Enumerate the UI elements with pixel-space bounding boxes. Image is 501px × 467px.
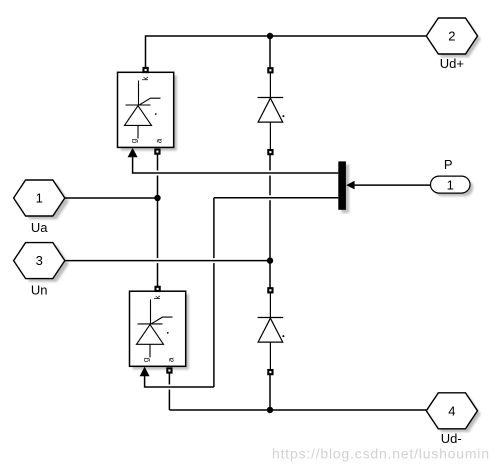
svg-text:4: 4 xyxy=(448,403,455,418)
wire: Ua to a-k node xyxy=(65,197,158,199)
svg-text:1: 1 xyxy=(36,191,43,206)
svg-text:P: P xyxy=(444,157,453,172)
wire: Un to diode column xyxy=(65,260,270,262)
diode D1 xyxy=(258,68,285,154)
wire: diode column bottom (diode2 to bottom bus) xyxy=(269,375,271,410)
svg-text:Un: Un xyxy=(31,283,48,298)
svg-text:Ud+: Ud+ xyxy=(440,56,464,71)
crossing gaps xyxy=(156,171,272,390)
svg-text:2: 2 xyxy=(448,29,455,44)
wire: top bus k1 to Ud+ port xyxy=(146,36,427,67)
svg-text:Ua: Ua xyxy=(31,220,48,235)
svg-text:1: 1 xyxy=(447,177,454,192)
demux bar xyxy=(338,161,346,209)
wire: vertical a1 to k2 (x=157.5) xyxy=(157,154,159,286)
node: bottom bus junction xyxy=(267,407,273,413)
wire: demux out1 to g1 xyxy=(133,156,339,173)
wire: demux out2 vertical (x=213.9) xyxy=(213,198,215,387)
port 3 Un hexagon xyxy=(14,243,65,279)
diode D2 xyxy=(258,288,285,374)
svg-text:3: 3 xyxy=(36,253,43,268)
node: Ua junction xyxy=(154,195,160,201)
node: Un junction xyxy=(267,257,273,263)
svg-text:Ud-: Ud- xyxy=(441,431,462,446)
inport P oval xyxy=(431,176,471,193)
svg-text:https://blog.csdn.net/lushoumi: https://blog.csdn.net/lushoumin xyxy=(272,446,490,462)
port 1 Ua hexagon xyxy=(14,180,65,216)
thyristor block 2 xyxy=(130,287,186,376)
arrowhead into demux xyxy=(346,181,354,190)
port 4 Ud- hexagon xyxy=(426,393,477,429)
wire: demux out2 horizontal + to g2 xyxy=(145,198,339,387)
port 2 Ud+ hexagon xyxy=(426,18,477,54)
wire: bottom bus a2 to Ud- port xyxy=(169,409,426,411)
wire: P to demux xyxy=(354,184,431,186)
wire: diode column top (top bus to diode1) xyxy=(269,36,271,68)
wire: a2 down to bottom bus xyxy=(168,373,170,410)
wire: diode column between diode1 and diode2 xyxy=(269,155,271,288)
node: top bus / diode column junction xyxy=(267,33,273,39)
thyristor block 1 xyxy=(118,68,174,157)
